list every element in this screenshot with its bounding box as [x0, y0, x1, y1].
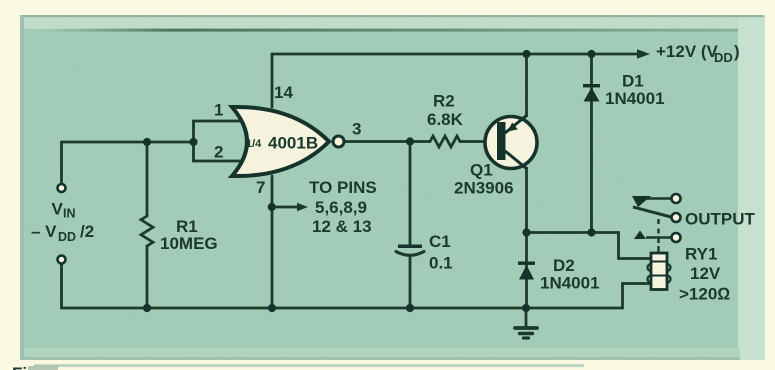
svg-text:TO PINS: TO PINS — [309, 178, 377, 197]
svg-text:C1: C1 — [429, 232, 451, 251]
svg-text:10MEG: 10MEG — [160, 234, 218, 253]
svg-text:D1: D1 — [622, 72, 644, 91]
svg-text:V: V — [52, 200, 64, 219]
svg-text:12 & 13: 12 & 13 — [312, 217, 372, 236]
svg-text:1N4001: 1N4001 — [605, 89, 665, 108]
svg-text:3: 3 — [352, 120, 361, 139]
svg-text:0.1: 0.1 — [429, 254, 453, 273]
svg-text:12V: 12V — [690, 264, 721, 283]
svg-text:): ) — [734, 42, 740, 61]
svg-text:1/4: 1/4 — [246, 138, 262, 150]
svg-text:R2: R2 — [433, 92, 455, 111]
svg-text:4001B: 4001B — [268, 134, 318, 153]
svg-text:OUTPUT: OUTPUT — [685, 210, 756, 229]
svg-text:1: 1 — [214, 101, 223, 120]
svg-text:6.8K: 6.8K — [427, 110, 464, 129]
svg-text:Q1: Q1 — [470, 161, 493, 180]
svg-text:14: 14 — [274, 83, 293, 102]
svg-text:5,6,8,9: 5,6,8,9 — [315, 198, 367, 217]
svg-text:D2: D2 — [553, 256, 575, 275]
svg-text:7: 7 — [256, 178, 265, 197]
svg-text:/2: /2 — [80, 222, 94, 241]
svg-text:2: 2 — [214, 143, 223, 162]
svg-text:DD: DD — [714, 50, 733, 65]
svg-text:IN: IN — [63, 207, 76, 221]
svg-text:DD: DD — [58, 230, 76, 244]
svg-text:2N3906: 2N3906 — [454, 179, 514, 198]
svg-text:RY1: RY1 — [685, 245, 717, 264]
svg-text:1N4001: 1N4001 — [540, 274, 600, 293]
svg-text:– V: – V — [31, 222, 57, 241]
svg-text:>120Ω: >120Ω — [679, 285, 730, 304]
svg-text:+12V (V: +12V (V — [656, 42, 719, 61]
